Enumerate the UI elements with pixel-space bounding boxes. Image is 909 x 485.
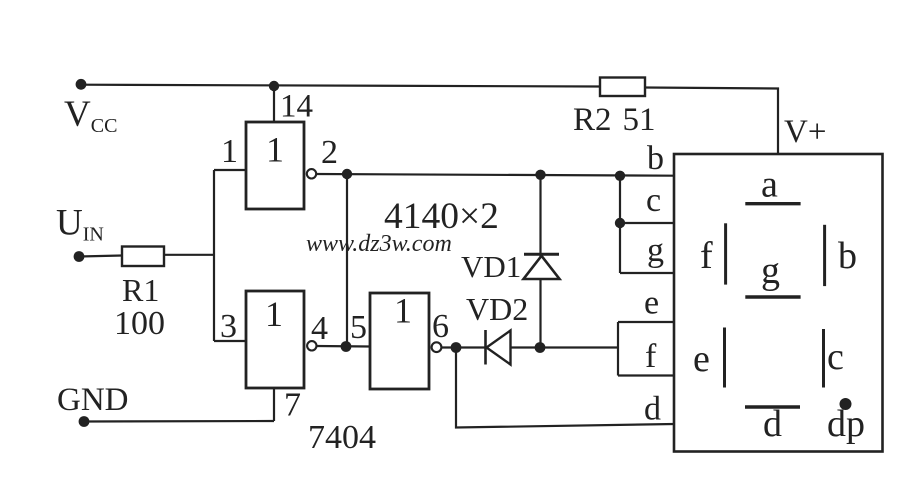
svg-text:c: c: [827, 336, 844, 378]
wire pin4 to pin5: [317, 345, 371, 348]
wire riser pin2 to pin5: [346, 174, 348, 346]
svg-text:1: 1: [265, 294, 283, 334]
wire pin7 stub: [273, 388, 275, 421]
svg-text:VCC: VCC: [64, 94, 117, 137]
wire Uin to R1: [79, 256, 122, 257]
svg-text:VD2: VD2: [466, 291, 528, 327]
wire c: [620, 222, 674, 224]
svg-text:7: 7: [284, 387, 301, 424]
wire bcg ladder vertical: [619, 176, 621, 273]
wire f: [618, 374, 674, 376]
svg-text:e: e: [644, 285, 659, 322]
pin bubble pin2: [307, 169, 316, 178]
svg-text:g: g: [761, 250, 780, 292]
wire GND: [84, 420, 274, 423]
node junction pin5: [341, 341, 352, 352]
op-amp U1a inverter box1: [246, 122, 304, 209]
svg-text:R2 51: R2 51: [573, 102, 656, 138]
node junction VD1 top: [535, 170, 545, 180]
svg-text:1: 1: [394, 291, 412, 331]
svg-text:VD1: VD1: [461, 249, 521, 284]
svg-text:V+: V+: [784, 114, 826, 150]
svg-text:7404: 7404: [308, 419, 376, 456]
svg-text:f: f: [700, 235, 713, 277]
resistor R2: [600, 78, 645, 97]
segment e bar: [723, 328, 726, 388]
diode VD1: [524, 253, 559, 256]
node junction c: [615, 218, 625, 228]
svg-text:www.dz3w.com: www.dz3w.com: [306, 231, 452, 257]
node junction pin2: [342, 169, 352, 179]
wire pin2 out: [316, 174, 674, 176]
svg-text:1: 1: [221, 133, 238, 170]
svg-text:14: 14: [280, 89, 313, 125]
svg-text:b: b: [647, 140, 664, 177]
wire top rail Vcc: [81, 85, 600, 87]
svg-text:f: f: [645, 338, 657, 375]
node junction pin6: [451, 342, 462, 353]
svg-text:d: d: [763, 403, 782, 445]
svg-text:1: 1: [266, 130, 284, 170]
pin bubble pin4: [307, 341, 316, 350]
svg-text:GND: GND: [57, 382, 129, 418]
svg-text:d: d: [644, 391, 661, 428]
terminal GND: [79, 416, 90, 427]
wire pin6 out to display f: [441, 346, 618, 348]
op-amp U1c inverter box3: [370, 293, 429, 389]
terminal Vcc: [76, 79, 87, 90]
dp dot: [840, 398, 852, 410]
svg-text:3: 3: [220, 308, 237, 345]
svg-text:6: 6: [432, 308, 449, 345]
pin bubble pin6: [432, 342, 442, 352]
svg-text:2: 2: [321, 134, 338, 171]
svg-text:e: e: [693, 338, 710, 380]
segment d bar: [745, 405, 800, 408]
node junction pin14: [269, 81, 279, 91]
svg-text:UIN: UIN: [56, 203, 104, 246]
wire input riser: [213, 170, 215, 341]
svg-text:g: g: [647, 232, 664, 269]
wire ef vertical: [617, 322, 619, 376]
segment a bar: [745, 202, 800, 205]
resistor R1: [122, 247, 164, 267]
segment f bar: [724, 223, 727, 284]
wire g: [620, 272, 674, 274]
svg-text:5: 5: [350, 309, 367, 346]
diode VD2: [484, 330, 487, 365]
node junction VD1 bottom: [535, 342, 546, 353]
svg-text:dp: dp: [827, 403, 865, 445]
node junction b: [615, 171, 625, 181]
svg-text:c: c: [646, 182, 661, 219]
segment b bar: [823, 225, 826, 286]
svg-text:b: b: [838, 235, 857, 277]
segment c bar: [822, 329, 825, 388]
wire R2 to V+ corner: [645, 88, 778, 155]
wire R1 to riser: [164, 254, 214, 256]
terminal Uin: [74, 251, 85, 262]
wire pin1 input: [214, 169, 246, 171]
segment g bar: [745, 295, 800, 298]
op-amp U1b inverter box2: [246, 291, 304, 388]
wire e: [618, 321, 674, 323]
svg-text:100: 100: [114, 305, 165, 342]
wire pin14 stub: [273, 86, 275, 122]
wire VD1 chain vertical: [539, 175, 541, 348]
svg-text:4: 4: [311, 310, 328, 347]
svg-text:R1: R1: [122, 272, 159, 308]
wire pin3 input: [214, 340, 246, 342]
wire d from pin6 to display: [456, 348, 674, 428]
svg-text:a: a: [761, 164, 778, 206]
display 7-seg box: [674, 154, 883, 452]
